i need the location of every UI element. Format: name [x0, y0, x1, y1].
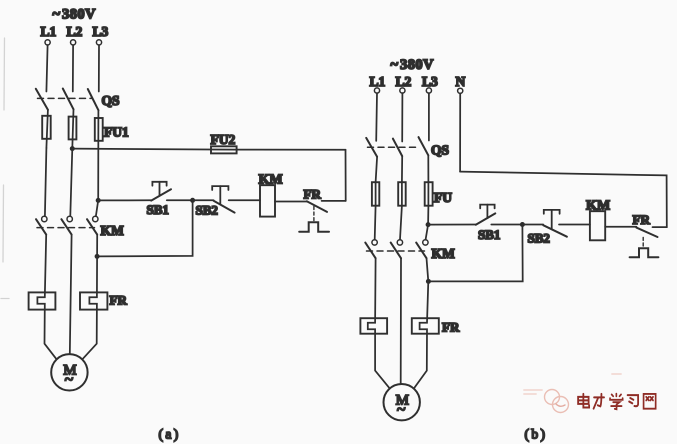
wire FR contact right terminal (a) [322, 200, 346, 202]
wire L3 drop to QS (b) [428, 93, 430, 140]
pushbutton SB1 blade (a) [151, 189, 171, 200]
svg-text:QS: QS [102, 93, 120, 108]
terminal L3 (b) [426, 88, 431, 93]
wire L2 fuse to KM contact (b) [400, 206, 402, 240]
svg-text:N: N [456, 74, 466, 89]
wire L2 tap to KM contact (a) [70, 149, 72, 216]
label ~380V (a) [53, 7, 97, 23]
watermark logo circles [545, 390, 569, 413]
contactor KM blade 3 (a) [87, 219, 97, 234]
label FU2 (a) [211, 132, 236, 147]
thermal relay FR heater box 2 (a) [80, 292, 107, 309]
wire inside fuses (b) [376, 182, 429, 206]
wire control feed with FU2 (a) [72, 149, 345, 150]
label L1 (a) [41, 24, 57, 39]
watermark text dian [578, 394, 589, 408]
svg-text:L3: L3 [93, 24, 109, 39]
fuse FU element 3 (b) [425, 182, 433, 206]
label QS (a) [102, 93, 120, 108]
svg-text:L3: L3 [422, 74, 438, 89]
fuse FU1 element 1 (a) [42, 116, 51, 139]
wire L2 KM to motor (a) [70, 235, 72, 355]
switch QS pole 2 blade (b) [393, 139, 402, 157]
wire control right side drop (a) [345, 150, 347, 201]
wire L1 fuse to KM contact (b) [374, 206, 377, 240]
wire L3 KM to FR heater (a) [83, 235, 97, 359]
node latch tap on L3 (a) [95, 254, 100, 259]
wire L3 tap to KM contact (a) [96, 200, 98, 216]
label SB1 (b) [478, 227, 500, 242]
svg-text:KM: KM [259, 173, 283, 188]
label FU (b) [434, 190, 452, 205]
label motor tilde (b) [397, 402, 406, 419]
terminal N (b) [458, 88, 463, 93]
terminal L2 (a) [71, 40, 76, 45]
contactor KM blade 2 (a) [61, 219, 71, 234]
label FR contact (a) [304, 187, 322, 202]
wire L3 QS to fuse (b) [427, 155, 429, 182]
wire L1 fuse to KM contact (a) [45, 148, 47, 216]
pushbutton SB2 actuator (a) [212, 186, 228, 204]
wire node to SB2 (a) [193, 199, 214, 201]
svg-text:~ 380V: ~ 380V [391, 57, 435, 73]
contactor KM main contact 2 terminal (a) [67, 216, 72, 221]
label FR heaters (b) [442, 320, 460, 335]
wire L1 QS to fuse (b) [376, 157, 378, 182]
wire L3 QS to fuse (a) [97, 110, 99, 200]
scan artifact: faint page-edge line upper left [1, 38, 9, 299]
svg-text:L1: L1 [41, 24, 57, 39]
switch QS pole 3 blade (a) [88, 89, 99, 110]
wire L1 QS to fuse (a) [46, 110, 48, 148]
thermal relay FR heater box 2 (b) [412, 318, 439, 334]
coil KM (a) [260, 185, 275, 216]
wire L2 QS to fuse (b) [401, 156, 403, 182]
label KM coil (b) [586, 199, 610, 214]
watermark text xi [628, 395, 639, 406]
wire L2 QS to fuse (a) [72, 109, 73, 148]
terminal L1 (b) [374, 88, 379, 93]
node L3 control tap (a) [96, 198, 101, 203]
label QS (b) [431, 143, 449, 158]
wire L1 KM to FR heater (a) [37, 235, 56, 359]
wire latch branch (b) [428, 225, 522, 282]
svg-text:SB1: SB1 [478, 227, 500, 242]
svg-text:(a): (a) [159, 427, 181, 442]
wire SB2 to coil (b) [559, 224, 590, 226]
svg-text:SB2: SB2 [196, 203, 218, 218]
FR trip dashed link (b) [642, 237, 644, 246]
svg-text:KM: KM [101, 223, 125, 238]
watermark text wang [644, 394, 656, 409]
wire L2 drop to QS (b) [401, 93, 403, 141]
relay contact FR blade (b) [636, 228, 657, 237]
wire L1 KM to FR heater (b) [368, 258, 390, 388]
KM linkage dashed line (b) [367, 250, 425, 252]
QS linkage dashed line (b) [368, 146, 419, 148]
svg-text:~ 380V: ~ 380V [53, 7, 97, 23]
thermal relay FR heater box 1 (b) [360, 318, 387, 334]
label L1 (b) [370, 74, 386, 89]
pushbutton SB2 actuator (b) [544, 210, 560, 229]
svg-text:KM: KM [586, 199, 610, 214]
svg-text:QS: QS [431, 143, 449, 158]
watermark smudges [524, 374, 621, 394]
pushbutton SB2 blade (a) [214, 201, 235, 213]
contactor KM blade 1 (a) [36, 219, 46, 234]
fuse FU element 1 (b) [372, 182, 379, 206]
svg-text:FR: FR [633, 212, 651, 227]
switch QS pole 2 blade (a) [63, 89, 74, 110]
switch QS pole 1 blade (b) [366, 138, 377, 157]
switch QS pole 1 blade (a) [36, 89, 48, 110]
wire N return (b) [460, 172, 667, 228]
fuse FU2 (a) [211, 146, 237, 153]
terminal L1 (a) [45, 40, 50, 45]
svg-text:SB2: SB2 [528, 231, 550, 246]
wire L2 KM to motor (b) [400, 258, 402, 384]
label SB2 (b) [528, 231, 550, 246]
label N (b) [456, 74, 466, 89]
pushbutton SB1 actuator (a) [152, 182, 166, 196]
label L2 (a) [67, 24, 83, 39]
switch QS pole 3 blade (b) [419, 137, 429, 155]
node L3 control tap (b) [426, 222, 431, 227]
label M (a) [63, 363, 76, 379]
KM linkage dashed line (a) [37, 227, 95, 229]
svg-text:FR: FR [442, 320, 460, 335]
pushbutton SB1 actuator (b) [480, 205, 494, 219]
label KM coil (a) [259, 173, 283, 188]
svg-text:L1: L1 [370, 74, 386, 89]
wire rung to SB1 (b) [428, 224, 476, 226]
label KM contacts (b) [432, 246, 456, 261]
label M (b) [396, 393, 409, 409]
relay contact FR blade (a) [307, 201, 327, 212]
motor M (b) [384, 384, 420, 420]
wire L1 drop to QS (b) [375, 93, 378, 141]
FR trip dashed link (a) [313, 207, 315, 221]
label ~380V (b) [391, 57, 435, 73]
wire FR contact right terminal (b) [653, 226, 667, 228]
wire SB1 to node (b) [491, 224, 522, 226]
wire coil to FR contact (a) [275, 201, 307, 203]
wire L3 drop to QS (a) [98, 45, 100, 91]
svg-text:L2: L2 [67, 24, 83, 39]
wire L1 drop to QS (a) [46, 45, 47, 91]
node L2 tap junction (a) [70, 146, 75, 151]
QS linkage dashed line (a) [38, 97, 93, 99]
caption (a) [159, 427, 181, 442]
wire N vertical (b) [459, 93, 461, 171]
svg-text:FU2: FU2 [211, 132, 236, 147]
contactor KM main contact 3 terminal (b) [423, 240, 428, 245]
watermark text xue [610, 394, 623, 410]
contactor KM blade 3 (b) [416, 243, 426, 259]
terminal L3 (a) [96, 40, 101, 45]
thermal relay FR heater box 1 (a) [29, 292, 56, 309]
label motor tilde (a) [65, 372, 74, 389]
wire L2 drop to QS (a) [72, 45, 74, 91]
svg-text:L2: L2 [396, 74, 412, 89]
svg-text:SB1: SB1 [147, 202, 169, 217]
caption (b) [525, 427, 548, 442]
svg-text:FR: FR [110, 293, 128, 308]
pushbutton SB1 blade (b) [476, 213, 496, 224]
watermark text li [594, 394, 605, 409]
pushbutton SB2 blade (b) [543, 225, 567, 237]
contactor KM main contact 2 terminal (b) [397, 240, 402, 245]
terminal L2 (b) [400, 88, 405, 93]
wire L3 KM to FR heater (b) [414, 258, 428, 388]
wire rung to SB1 (a) [98, 199, 151, 201]
wire SB2 to coil (a) [229, 199, 260, 201]
label SB2 (a) [196, 203, 218, 218]
contactor KM main contact 3 terminal (a) [93, 216, 98, 221]
node latch tap on L3 (b) [426, 279, 431, 284]
coil KM (b) [590, 211, 605, 240]
motor M (a) [51, 354, 87, 390]
FR trip bump symbol (a) [299, 222, 329, 231]
fuse FU1 element 3 (a) [95, 118, 103, 141]
wire coil to FR contact (b) [605, 226, 636, 228]
svg-text:FU: FU [434, 190, 452, 205]
label KM contacts (a) [101, 223, 125, 238]
node SB1-SB2 junction (a) [190, 198, 195, 203]
wire node to SB2 (b) [522, 224, 543, 226]
contactor KM main contact 1 terminal (a) [42, 216, 47, 221]
svg-text:KM: KM [432, 246, 456, 261]
wire latch branch (a) [97, 200, 193, 256]
label FR contact (b) [633, 212, 651, 227]
contactor KM blade 1 (b) [365, 243, 375, 259]
label L2 (b) [396, 74, 412, 89]
contactor KM blade 2 (b) [391, 243, 401, 259]
FR trip bump symbol (b) [630, 248, 659, 257]
label FR heaters (a) [110, 293, 128, 308]
label SB1 (a) [147, 202, 169, 217]
svg-text:~: ~ [65, 372, 74, 389]
svg-text:~: ~ [397, 402, 406, 419]
node SB1-SB2 junction (b) [520, 222, 525, 227]
wire SB1 to node (a) [167, 199, 193, 201]
svg-text:FR: FR [304, 187, 322, 202]
wire L3 fuse to tap (b) [426, 206, 429, 240]
label L3 (a) [93, 24, 109, 39]
svg-text:FU1: FU1 [104, 125, 129, 140]
label FU1 (a) [104, 125, 129, 140]
label L3 (b) [422, 74, 438, 89]
fuse FU1 element 2 (a) [69, 117, 77, 140]
contactor KM main contact 1 terminal (b) [372, 240, 377, 245]
svg-text:(b): (b) [525, 427, 548, 442]
fuse FU element 2 (b) [398, 182, 406, 206]
